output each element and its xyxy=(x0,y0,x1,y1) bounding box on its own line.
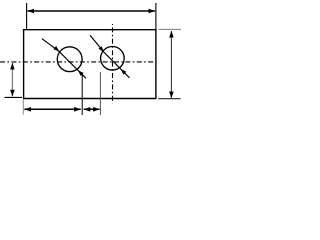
bottom dimension line B xyxy=(84,108,100,110)
plate outline: bottom edge xyxy=(24,98,156,100)
diameter arrowhead hole 1 upper-left xyxy=(53,46,59,52)
right dimension extension line top xyxy=(159,28,182,30)
bottom extension line from hole 1 edge xyxy=(81,74,83,115)
diameter arrowhead hole 2 lower-right xyxy=(121,69,127,75)
hole 2 circle xyxy=(101,47,125,71)
left dimension bottom extension line xyxy=(5,96,23,98)
bottom extension line from hole 2 edge xyxy=(99,72,101,115)
hole 1 circle xyxy=(57,47,82,72)
plate outline: left edge xyxy=(23,29,25,99)
plate outline: top edge xyxy=(23,29,157,31)
vertical centerline hole 2 (dashed) xyxy=(112,24,114,104)
top dimension extension line right xyxy=(155,3,157,29)
bottom dimension line A xyxy=(24,108,80,110)
right dimension line xyxy=(170,31,172,98)
horizontal centerline (dashed) xyxy=(0,61,154,63)
top dimension extension line left xyxy=(26,3,28,29)
bottom extension line from plate corner xyxy=(22,99,24,114)
plate outline: right edge xyxy=(155,29,157,99)
top dimension line xyxy=(28,10,156,12)
diameter line hole 1 xyxy=(42,39,86,79)
diameter arrowhead hole 2 upper-left xyxy=(99,46,105,52)
left dimension line xyxy=(11,63,13,96)
right dimension extension line bottom xyxy=(158,98,180,100)
diameter arrowhead hole 1 lower-right xyxy=(78,70,84,76)
diameter line hole 2 xyxy=(90,35,130,78)
